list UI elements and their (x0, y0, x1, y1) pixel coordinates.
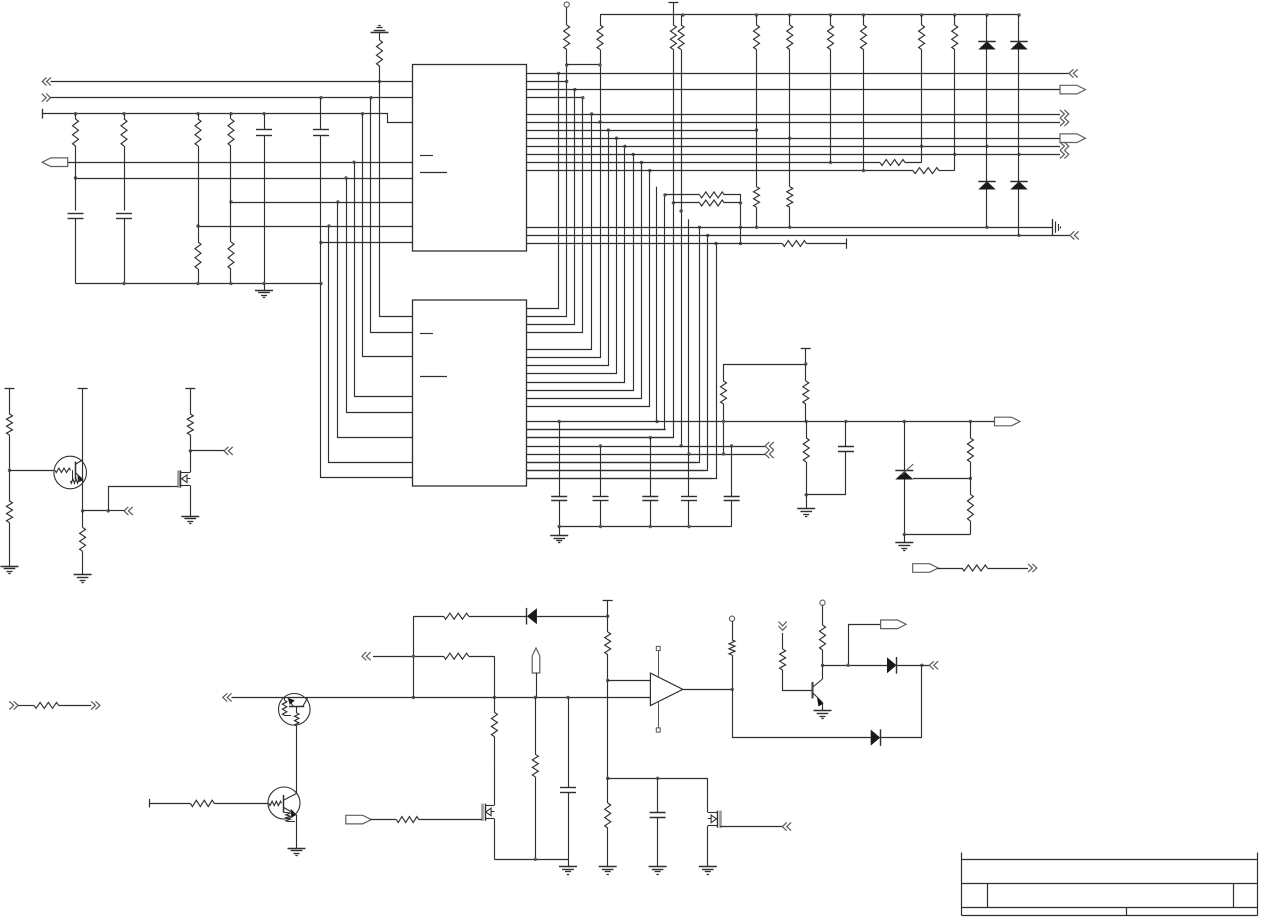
resistor R5 (198, 226, 200, 242)
wire net W7 (198, 226, 413, 228)
wire T8 down (607, 600, 609, 632)
chevron on net 122 (1060, 118, 1069, 126)
wire net 697 to op-amp (232, 697, 651, 699)
wire to op-amp + input (608, 680, 651, 682)
junctions on net 697 (412, 696, 415, 699)
chevron connector on net 73 (1069, 69, 1078, 77)
junctions on net 154 (953, 153, 956, 156)
junction nodes on W3 (74, 112, 77, 115)
wire cap ground bus (559, 526, 732, 528)
wire M1 gate link (170, 486, 178, 488)
U1 internal marks (420, 155, 433, 157)
resistor R1 (75, 114, 77, 119)
wire column 607.7 down (607, 680, 609, 778)
terminal T6 bar (185, 388, 195, 390)
wire grid vertical V20 (527, 244, 717, 479)
ground GND11 (649, 866, 667, 868)
wire Q3 emitter to ground (822, 703, 824, 712)
wire link y=494.8 (806, 494, 846, 496)
wire grid vertical V12 (527, 171, 650, 407)
wire P6 down with resistor R40 (536, 673, 538, 698)
wire net 616 (diode feedback) (413, 616, 415, 697)
MOSFET M1 (177, 470, 180, 487)
transistor Q1 (digital, rotated) (279, 694, 311, 726)
diode D3 (1018, 15, 1020, 41)
wire gate net with resistor R41 (370, 819, 396, 821)
capacitor C8 (688, 454, 690, 496)
wire column L8 to U2 pin (321, 284, 413, 478)
resistor R20 pullup (863, 15, 865, 25)
chevron on net 146 (1060, 142, 1069, 150)
wire M3 gate to chevron (720, 826, 782, 828)
terminal T4 bar (5, 388, 15, 390)
wire net W5 (76, 178, 413, 180)
op-amp U3 triangle (650, 673, 682, 705)
junction on bottom bus (534, 858, 537, 861)
wire grid vertical V16 (681, 211, 683, 446)
chevron connector (224, 447, 233, 455)
chevron on R28 net (1028, 564, 1037, 572)
U1 right pin bus2 y=235.4 to chevron (527, 235, 1071, 237)
wire grid vertical V17 (688, 219, 690, 454)
ground GND13 (814, 710, 832, 712)
ground GND1 (264, 284, 266, 291)
junction on W4 (352, 161, 355, 164)
ground GND10 (568, 859, 570, 866)
resistor R3 (198, 114, 200, 119)
wire D6 to corner up (880, 665, 921, 737)
U1 right pin wire y=97 (527, 97, 583, 99)
junction on divider (969, 477, 972, 480)
wire column x=494.4 down with resistor R37 (494, 656, 496, 712)
junction on net 162 (829, 161, 832, 164)
wire emitter node to chevron (83, 510, 109, 512)
connector P8 pentagon (881, 620, 907, 629)
resistor R35 (444, 613, 469, 619)
U2 pin wire y=421.5 to pentagon P4 (527, 421, 995, 423)
ground GND5 (1, 566, 19, 568)
junction at 657.6 (656, 777, 659, 780)
U1 right pin wire y=170.6 with resistor R9 (527, 170, 914, 172)
wire net W8 (321, 242, 413, 244)
resistor R19 pullup (830, 15, 832, 25)
inverted ground symbol (371, 32, 389, 34)
wire net 656 with resistor R36 (373, 656, 444, 658)
U1 right pin wire y=130 (527, 130, 757, 132)
wire bottom bus y=859.3 (494, 859, 568, 861)
chevron connector (down) above R44 (779, 622, 787, 631)
wire branch up to MOSFET M1 gate (109, 487, 171, 511)
resistor R14 pullup (681, 15, 683, 25)
diode D7 (887, 657, 897, 673)
resistor R7 (pull to upper rail) (379, 66, 381, 82)
IC U2 (413, 300, 527, 486)
transistor Q3 (811, 682, 813, 699)
U1 right pin wire y=194.9 with resistor R45 to drop wire (700, 192, 725, 198)
wire grid vertical V11 (527, 163, 642, 399)
wire branch to pentagon P8 (849, 625, 881, 666)
chevron connector (929, 661, 938, 669)
wire grid vertical V5 (527, 114, 592, 350)
wire column L3 to U2 pin (363, 114, 413, 357)
chevron connector for net 697 (223, 693, 232, 701)
U2 pin wire y=429.4 (527, 429, 666, 431)
junctions on net 146 (920, 145, 923, 148)
wire grid vertical V1 (527, 73, 559, 308)
ground GND4 (904, 534, 906, 543)
U1 right pin wire y=162.5 with resistor R8 (527, 162, 881, 164)
ground GND3 (806, 495, 808, 509)
U2 pin wire y=454.1 to chevron (527, 454, 766, 456)
junction on net 364 (804, 362, 807, 365)
junction base node Q0 (8, 469, 11, 472)
wire column L4 to U2 pin (355, 162, 413, 396)
wire output node down to diode D6 (733, 689, 871, 737)
wire Q2 emitter to ground (296, 815, 298, 848)
resistor R29 (9, 389, 11, 414)
wire column L1 to U2 pin (380, 82, 413, 317)
U1 right pin wire y=138 to pentagon (527, 138, 1061, 140)
capacitor C2 (320, 98, 322, 130)
junction on net 138 (788, 137, 791, 140)
wire net W1 with left connector (42, 77, 51, 85)
resistor R12 pullup (600, 15, 602, 25)
op-amp power stubs and squares (658, 651, 660, 677)
wire D7 cathode to chevron (897, 665, 930, 667)
wire net 665 with diode D7 to chevron (823, 665, 888, 667)
capacitor C12 (657, 778, 659, 813)
resistor R43 pullup (820, 625, 826, 650)
junction on W8 (319, 241, 322, 244)
transistor Q2 (digital) (268, 787, 300, 819)
junction at 607.7/615.9 (606, 615, 609, 618)
wire grid vertical V19 (527, 235, 708, 470)
terminal stub T1 (42, 109, 44, 119)
terminal T3 bar (801, 348, 811, 350)
transistor Q0 (digital) (54, 456, 87, 489)
capacitor C3 (75, 178, 77, 211)
junctions on W7 (196, 224, 199, 227)
junctions on net 446 (599, 444, 602, 447)
junction on net 130 (755, 128, 758, 131)
ground GND8 (288, 848, 306, 850)
wire grid vertical V4 (527, 98, 583, 333)
junction Q3 collector node (821, 664, 824, 667)
zener diode DZ1 (904, 422, 906, 472)
resistor R42 pullup (729, 640, 735, 655)
chevron on net 154 (1060, 150, 1069, 158)
wire net W4 from P1 (68, 162, 413, 164)
U2 pin wire y=462.2 (527, 462, 697, 464)
terminal T8 bar (603, 600, 613, 602)
U1 right pin wire y=73 to right edge (527, 73, 1070, 75)
wire op-amp output (683, 689, 732, 691)
resistor R44 (782, 633, 784, 649)
junction at zener anode (903, 533, 906, 536)
connector P4 pentagon (995, 417, 1021, 426)
wire net 778 horizontal (608, 778, 708, 780)
U2 pin wire y=470.3 (527, 470, 705, 472)
resistor R24 (805, 364, 807, 381)
U2 pin wire y=478.4 (527, 478, 713, 480)
wire T3 to net 364 (805, 349, 807, 364)
wire grid vertical V18 (527, 227, 700, 462)
chevron on bus2 (1070, 231, 1079, 239)
resistor R32 (190, 389, 192, 414)
diode D1 (986, 15, 988, 41)
title block frame (961, 853, 963, 916)
wire column L6 to U2 pin (338, 202, 413, 438)
junctions on W6 (229, 200, 232, 203)
terminal T5 bar (78, 388, 88, 390)
chevron connector (124, 507, 133, 515)
junction on net 170 (862, 169, 865, 172)
junction Q0 emitter node (81, 509, 84, 512)
junction output node (731, 688, 734, 691)
resistor R22 pullup (954, 15, 956, 25)
capacitor C10 (845, 422, 847, 447)
ground GND6 (74, 574, 92, 576)
U2 internal marks (420, 333, 433, 335)
wire net W2 with right chevron connector (42, 94, 51, 102)
capacitor C7 (650, 438, 652, 497)
capacitor C11 (568, 698, 570, 788)
wire grid vertical V14 (527, 195, 665, 430)
resistor R17 chain with R18 to bus1 (789, 15, 791, 25)
wire grid vertical V8 (527, 138, 617, 373)
wire column L7 to U2 pin (329, 226, 413, 463)
resistor R27 (970, 478, 972, 494)
junction on net 454 (687, 452, 690, 455)
junction at 778 (606, 777, 609, 780)
wire column L2 to U2 pin (371, 98, 413, 333)
MOSFET M2 (481, 804, 484, 821)
junctions on cap bus (558, 525, 561, 528)
U1 right pin wire y=81 (to pullup) (527, 81, 567, 83)
junction node on W1 (378, 80, 381, 83)
connector P7 pentagon (346, 815, 372, 824)
wire grid vertical V9 (527, 146, 625, 382)
capacitor C6 (600, 446, 602, 497)
bullet connector P6 (up) (532, 648, 540, 673)
junction on wire (107, 509, 110, 512)
wire net W3 (top-left bus) (42, 114, 412, 123)
junctions on W9 (122, 282, 125, 285)
terminal stub on net 243 (846, 238, 848, 249)
wire with resistor R33 (18, 705, 34, 707)
wire grid vertical V2 (527, 82, 567, 317)
capacitor C1 (264, 114, 266, 130)
chevron connector right (91, 701, 100, 709)
wire grid vertical V3 (527, 90, 575, 325)
wire zener cathode link y=478.4 (913, 478, 970, 480)
connector P3 pentagon (1060, 134, 1086, 143)
wire grid vertical V10 (527, 154, 634, 390)
wire drain node to chevron (190, 450, 224, 452)
capacitor C9 (731, 446, 733, 497)
junction on net 437 (649, 436, 652, 439)
resistor R15 chain with R16 to bus1 (756, 15, 758, 25)
diode D2 (986, 146, 988, 181)
title block dividers (987, 884, 989, 908)
U1 right pin wire y=203 with resistor R46 (700, 200, 725, 206)
diode D6 (871, 730, 881, 746)
U1 right pin wire y=122 (527, 122, 1061, 124)
resistor R11 pullup (564, 25, 570, 50)
ground GND7 (181, 516, 199, 518)
terminal T2 bar (668, 2, 678, 4)
chevron on net 454 (765, 450, 774, 458)
resistor R2 (124, 114, 126, 119)
junction op-amp + input node (606, 679, 609, 682)
junction on bus2 (1017, 234, 1020, 237)
junction net656/column (412, 655, 415, 658)
chevron connector left (9, 701, 18, 709)
power rail y=15 (600, 14, 1019, 16)
wire Q1 base stem to Q2 collector (296, 726, 298, 794)
resistor R23 (723, 364, 725, 381)
connector P1 (left pentagon) (42, 158, 67, 167)
capacitor C4 (116, 213, 132, 215)
resistor R30 to ground (9, 470, 11, 501)
resistor R4 (230, 114, 232, 119)
diode D4 (1018, 154, 1020, 181)
terminal circle TC3 (820, 600, 825, 605)
shield/chassis symbol at bus1 end (1052, 219, 1054, 235)
wire grid vertical V15 (527, 203, 674, 438)
chevron connector (782, 823, 791, 831)
ground GND12 (699, 866, 717, 868)
wire grid vertical V13 (656, 187, 658, 422)
resistor R39 to ground (607, 778, 609, 803)
chevron on net 114 (1060, 110, 1069, 118)
diode D5 (cathode left) (526, 608, 528, 625)
wire collector column Q0 (82, 389, 84, 511)
wire Q2 base with resistor R34 (149, 803, 190, 805)
junctions on rail (681, 13, 684, 16)
U2 pin wire y=446 to chevron (527, 446, 766, 448)
junctions on net 421 (558, 420, 561, 423)
junction nodes on W2 (319, 96, 322, 99)
junction on R12 column (598, 63, 601, 66)
ground GND2 (559, 527, 561, 536)
junction node on R11 column (565, 63, 568, 66)
junctions on bus1 (755, 226, 758, 229)
wire D5 to node (537, 616, 608, 618)
terminal circle TC1 (564, 2, 569, 7)
U1 right pin wire y=146 (527, 146, 1061, 148)
ground GND9 (599, 866, 617, 868)
junctions on drop wire x=740.5 (739, 201, 742, 204)
resistor R25 to ground (806, 422, 808, 439)
U1 right pin wire y=114 to right chevron (527, 114, 1061, 116)
wire base to Q0 (10, 470, 54, 472)
wire link 567-600 at y=65 (567, 64, 600, 66)
connector P2 pentagon (1060, 85, 1086, 94)
wire net 364 (724, 364, 806, 366)
U2 pin wire y=437.6 (527, 437, 674, 439)
resistor R26 (970, 422, 972, 439)
wire bottom link y=534.4 (904, 534, 970, 536)
U1 right pin wire y=154 (527, 154, 1061, 156)
U1 right pin wire y=89 to right pentagon (527, 89, 1061, 91)
wire grid vertical V7 (527, 130, 609, 365)
wire net with resistor R28 to chevron (937, 568, 962, 570)
connector P5 pentagon (913, 564, 939, 573)
IC U1 (413, 65, 527, 252)
U1 right pin bus1 y=227.3 to shield (527, 227, 1053, 229)
resistor R13 pullup (673, 2, 675, 25)
wire net W6 (231, 202, 413, 204)
U1 right pin wire y=243.5 with resistor R10 (527, 243, 783, 245)
chevron connector net 656 (362, 652, 371, 660)
junctions on W5 (74, 176, 77, 179)
resistor R38 (605, 632, 611, 655)
resistor R6 (230, 202, 232, 242)
resistor R21 pullup (921, 15, 923, 25)
terminal T7 bar (149, 799, 151, 808)
wire grid vertical V6 (527, 122, 601, 358)
wire column L5 to U2 pin (347, 178, 413, 413)
resistor R31 to ground (82, 511, 84, 528)
capacitor C5 (559, 422, 561, 497)
wire ground bus W9 (76, 283, 322, 285)
junction GND node (805, 493, 808, 496)
chevron on net 446 (765, 442, 774, 450)
junction M1 drain node (189, 449, 192, 452)
MOSFET M3 (mirrored) (707, 778, 709, 794)
junction on net 665 (920, 664, 923, 667)
terminal circle TC2 (729, 616, 734, 621)
